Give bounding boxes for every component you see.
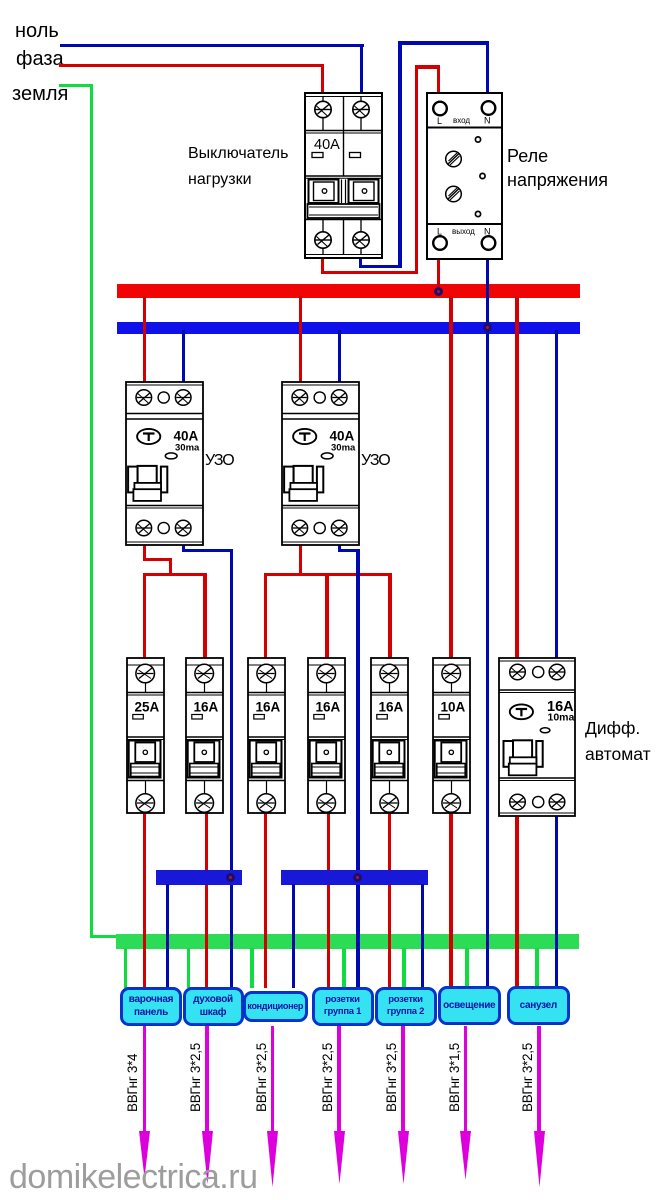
cable arrow 2 (205, 1026, 208, 1133)
wire: earth stub to bathroom box (535, 948, 538, 988)
wire: red bus to RCD2 (299, 296, 302, 383)
svg-text:N: N (484, 226, 491, 236)
wire: earth stub to lighting box (465, 948, 468, 988)
wire: relay L input drop (437, 65, 440, 93)
cable arrow 1 (143, 1026, 146, 1133)
wire: earth horizontal from label (59, 84, 93, 87)
junction on mini bus 1 (226, 873, 235, 882)
label: фаза (16, 48, 64, 71)
wire: diff automat neutral output to bathroom box (555, 814, 558, 988)
wire: group2 distribution horizontal (264, 573, 391, 576)
wire: RCD2 neutral out horizontal (338, 549, 360, 552)
wire: RCD1 phase out down (143, 544, 146, 561)
RCD1 (УЗО) 40A 30mA (125, 381, 204, 546)
svg-text:16А: 16А (316, 699, 341, 714)
wire: phase supply drop to load switch (321, 64, 324, 94)
wire: RCD2 neutral long drop to mini bus 2 and sockets1 box (356, 549, 359, 988)
wire: QF2 output to oven box (205, 812, 208, 988)
label: Выключатель нагрузки (188, 141, 288, 193)
breaker QF5 16А (370, 657, 409, 814)
wire: drop to breaker QF2 (203, 573, 206, 658)
label: Дифф. автомат (585, 715, 651, 767)
watermark: domikelectrica.ru (9, 1158, 257, 1197)
wire: RCD1 neutral long drop to mini bus 1 and oven box (230, 549, 233, 988)
svg-text:30ma: 30ma (175, 443, 200, 454)
wire: phase top horizontal to relay (415, 65, 439, 68)
bus: earth (green) busbar (116, 934, 579, 949)
junction on mini bus 2 (353, 873, 362, 882)
breaker QF3 16А (247, 657, 286, 814)
wire: relay N output long drop to lighting box (486, 257, 489, 988)
wire: phase riser to relay (415, 65, 418, 274)
cable label 2: ВВГнг 3*2,5 (188, 1032, 204, 1112)
voltage relay KV1 (Реле напряжения) (426, 92, 503, 260)
load box: bathroom (507, 986, 571, 1026)
label: УЗО (right) (361, 452, 390, 470)
svg-text:40А: 40А (330, 429, 355, 444)
load box: hob (120, 987, 182, 1027)
wire: blue bus to RCD2 (338, 330, 341, 383)
wire: load switch N out down (359, 255, 362, 268)
cable label 6: ВВГнг 3*1,5 (447, 1032, 463, 1112)
load box: sockets group 2 (375, 987, 437, 1027)
cable label 1: ВВГнг 3*4 (125, 1032, 141, 1112)
wire: QF1 output to hob box (143, 812, 146, 988)
wire: QF5 output to sockets2 box (388, 812, 391, 988)
wire: neutral supply horizontal (60, 44, 364, 47)
wire: group1 distribution horizontal (143, 573, 206, 576)
label: УЗО (left) (205, 452, 234, 470)
wire: RCD2 neutral out down (338, 544, 341, 552)
wire: mini bus1 drop to hob box (166, 884, 169, 988)
svg-text:16А: 16А (379, 699, 404, 714)
wire: QF4 output to sockets1 box (327, 812, 330, 988)
wire: drop to breaker QF3 (264, 573, 267, 658)
wire: earth main vertical (90, 84, 93, 938)
svg-text:30ma: 30ma (331, 443, 356, 454)
load box: sockets group 1 (312, 987, 374, 1027)
svg-text:40А: 40А (314, 137, 340, 153)
wire: relay L output to red bus (437, 257, 440, 293)
wire: RCD1 phase out step horizontal (143, 558, 172, 561)
cable label 3: ВВГнг 3*2,5 (254, 1032, 270, 1112)
wire: phase supply horizontal (59, 64, 324, 67)
wire: red bus to RCD1 (143, 296, 146, 383)
svg-text:выход: выход (452, 227, 475, 236)
wire: blue bus to RCD1 (182, 330, 185, 383)
wire: load switch L out down (321, 255, 324, 274)
wire: earth stub to sockets1 box (342, 948, 345, 988)
bus: mini neutral bus 1 (156, 870, 242, 885)
wire: mini bus2 drop to sockets2 box (421, 884, 424, 988)
cable arrow 4 (337, 1026, 340, 1133)
svg-text:40А: 40А (174, 429, 199, 444)
svg-text:L: L (437, 116, 442, 126)
wire: drop to breaker QF1 (143, 573, 146, 658)
wire: earth stub to sockets2 box (402, 948, 405, 988)
wire: drop to breaker QF5 (388, 573, 391, 658)
wire: RCD1 neutral out horizontal (182, 549, 233, 552)
junction on red bus (relay feed) (434, 287, 443, 296)
wire: load switch L out horizontal (321, 271, 418, 274)
svg-text:16А: 16А (255, 699, 280, 714)
breaker QF2 16А (185, 657, 224, 814)
cable label 4: ВВГнг 3*2,5 (320, 1032, 336, 1112)
wire: neutral top horizontal to relay (398, 41, 488, 44)
diff automat QFD1 16A 10mA (498, 657, 576, 817)
svg-text:L: L (437, 226, 442, 236)
label: земля (12, 83, 68, 106)
wire: mini bus2 drop to conditioner box (292, 884, 295, 988)
wire: earth to green bus (90, 935, 119, 938)
wire: blue bus to diff automat (555, 330, 558, 658)
wire: RCD2 phase out down (299, 544, 302, 576)
svg-text:N: N (484, 115, 491, 125)
svg-text:16А: 16А (194, 699, 219, 714)
svg-text:10ma: 10ma (547, 712, 574, 724)
RCD2 (УЗО) 40A 30mA (281, 381, 360, 546)
wire: QF6 output to lighting box (449, 812, 452, 988)
svg-text:10А: 10А (440, 699, 465, 714)
cable arrow 5 (401, 1026, 404, 1133)
wire: earth stub to oven box (187, 948, 190, 988)
wire: neutral supply drop to load switch (360, 44, 363, 93)
bus: mini neutral bus 2 (281, 870, 428, 885)
wire: red bus to diff automat (515, 296, 518, 658)
cable label 5: ВВГнг 3*2,5 (384, 1032, 400, 1112)
wire: earth stub to hob box (124, 948, 127, 988)
svg-text:вход: вход (453, 116, 470, 125)
cable arrow 6 (464, 1026, 467, 1133)
wire: neutral riser to relay (398, 41, 401, 268)
breaker QF4 16А (307, 657, 346, 814)
load box: lighting (438, 986, 501, 1026)
wire: QF3 output to conditioner box (264, 812, 267, 988)
breaker QF1 25А (126, 657, 165, 814)
svg-text:25А: 25А (134, 699, 159, 714)
cable arrow 7 (537, 1026, 540, 1133)
load box: conditioner (243, 991, 308, 1022)
label: Реле напряжения (507, 145, 608, 192)
bus: phase (red) busbar (117, 284, 580, 298)
wire: drop to breaker QF4 (325, 573, 328, 658)
wire: load switch N out horizontal (359, 265, 402, 268)
cable label 7: ВВГнг 3*2,5 (520, 1032, 536, 1112)
load box: oven (183, 987, 244, 1027)
wire: red bus to breaker QF6 (449, 296, 452, 658)
wire: diff automat phase output to bathroom box (515, 814, 518, 988)
junction on blue bus (relay feed) (483, 323, 492, 332)
cable arrow 3 (271, 1026, 274, 1133)
breaker QF6 10А (432, 657, 471, 814)
wire: RCD1 neutral out down (182, 544, 185, 552)
wire: RCD1 phase out step down (169, 558, 172, 576)
label: ноль (15, 20, 59, 43)
wire: relay N input drop (486, 41, 489, 93)
wire: earth stub to conditioner box (250, 948, 253, 988)
bus: neutral (blue) busbar (117, 322, 580, 334)
load switch SA1 40A (Выключатель нагрузки) (304, 92, 383, 259)
